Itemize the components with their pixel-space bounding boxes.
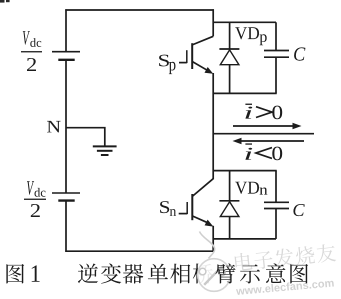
diode VDp [219, 22, 239, 93]
wire: node N stub and ground lead [66, 128, 105, 146]
wire: upper snubber bottom [213, 92, 277, 94]
wire: left bus middle segment [65, 60, 67, 193]
wire: lower snubber top [213, 170, 277, 172]
caption: 臂示意图 [215, 263, 235, 283]
label i>0 [245, 104, 282, 120]
label C upper [294, 47, 305, 60]
battery E1 (Vdc/2 upper) [52, 52, 80, 60]
wire: mid output line [213, 133, 314, 135]
arrow i<0 [233, 138, 305, 145]
label N [47, 121, 61, 133]
wire: upper snubber top [213, 21, 276, 23]
IGBT Sp [179, 36, 213, 74]
battery E2 (Vdc/2 lower) [52, 193, 80, 201]
caption: 逆变器单相桥 [78, 264, 98, 284]
watermark url www.elecfans.com [236, 279, 334, 296]
IGBT Sn [179, 179, 214, 227]
label Sp [159, 55, 175, 74]
wire: bottom DC rail [65, 250, 214, 252]
label i<0 [245, 143, 282, 160]
watermark logo circle [198, 259, 231, 292]
capacitor C upper [264, 22, 289, 93]
watermark logo right eye [219, 269, 226, 276]
label C lower [293, 204, 304, 216]
top-left scan artifact [0, 0, 10, 3]
label VDp [235, 27, 267, 45]
ground symbol [93, 146, 117, 155]
wire: phase-leg vertical, top segment [212, 9, 214, 36]
watermark logo left eye [199, 268, 206, 275]
diode VDn [219, 171, 239, 239]
watermark logo slash [204, 264, 224, 284]
wire: lower snubber bottom [213, 238, 276, 240]
watermark logo connecting curve [200, 232, 215, 259]
wire: phase-leg vertical, bottom segment [212, 226, 214, 252]
arrow i>0 [233, 123, 302, 130]
wire: phase-leg vertical, middle segment [212, 73, 214, 179]
wire: left bus upper segment [65, 9, 67, 51]
label Vdc/2 lower [24, 181, 46, 217]
label VDn [235, 182, 267, 195]
caption: 图 1 [6, 264, 24, 284]
wire: top DC rail [65, 9, 214, 11]
label Sn [160, 201, 176, 216]
watermark text 电子发烧友 [234, 243, 336, 272]
wire: left bus lower segment [65, 201, 67, 252]
label Vdc/2 upper [21, 31, 42, 71]
capacitor C lower [264, 171, 289, 239]
